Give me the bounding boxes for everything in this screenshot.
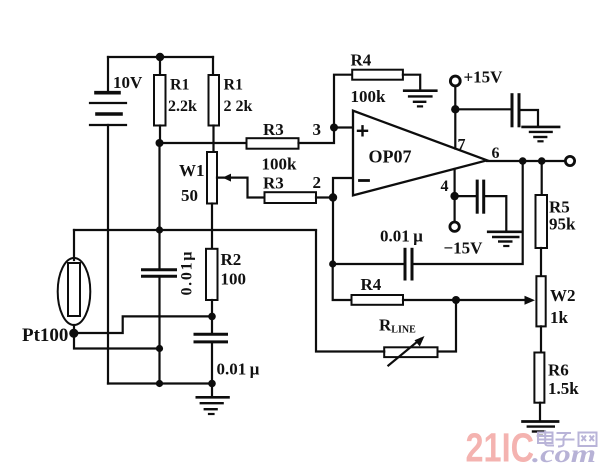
wire +15V to decoupling cap: [455, 108, 511, 110]
svg-text:W1: W1: [179, 161, 205, 180]
svg-text:3: 3: [313, 120, 322, 139]
label 2.2k right: [224, 98, 253, 115]
label R5: [549, 198, 570, 217]
label pin 7: [458, 137, 466, 154]
wire R6 to ground: [539, 403, 541, 421]
wire feedback cap left: [333, 263, 405, 265]
label 100k bridge: [262, 155, 298, 174]
wire R4 node down to R_LINE: [438, 300, 457, 352]
node pin4 / -15V: [450, 192, 458, 200]
node bridge left (R1-R3): [156, 139, 164, 147]
svg-text:R1: R1: [170, 77, 190, 94]
wire battery top stub: [107, 57, 109, 90]
ground at R4 top: [404, 91, 436, 107]
svg-text:0.01 µ: 0.01 µ: [217, 360, 260, 379]
label 10V: [113, 73, 143, 92]
terminal +15V: [450, 76, 460, 86]
wire W1 bottom to R2: [211, 204, 213, 249]
node output R5: [538, 157, 546, 165]
ground at R6: [523, 422, 558, 436]
node R4 low / W2 wiper / R_LINE: [452, 296, 460, 304]
svg-text:OP07: OP07: [369, 147, 412, 167]
svg-text:1k: 1k: [550, 308, 569, 327]
wire R3-1 left lead at y143: [160, 142, 247, 144]
node R2 bottom: [208, 313, 216, 321]
label R_LINE: [379, 316, 416, 336]
svg-text:50: 50: [181, 186, 198, 205]
svg-text:7: 7: [458, 137, 466, 154]
label 100 R2: [221, 270, 247, 289]
resistor R1 left: [154, 57, 166, 143]
svg-text:R6: R6: [548, 361, 569, 380]
wire R2 bottom: [211, 300, 213, 316]
node top rail / R1 left: [156, 53, 164, 61]
svg-text:2.2k: 2.2k: [168, 98, 197, 115]
label R3 lower: [263, 174, 284, 193]
label 2.2k left: [168, 98, 197, 115]
wire cap to ground -15V: [484, 196, 507, 231]
wire R5 to W2: [540, 248, 542, 276]
ground bottom center: [197, 397, 229, 414]
wire R_LINE left lead up: [316, 231, 384, 352]
svg-text:21IC: 21IC: [466, 425, 535, 471]
wire pin 3: [334, 126, 353, 128]
wire Pt100 to R2 bottom (3-wire): [74, 316, 212, 333]
label R3 upper: [263, 120, 284, 139]
label +15V: [464, 68, 504, 87]
label R2: [221, 250, 242, 269]
node output feedback: [519, 157, 527, 165]
wire R3-2 right to pin2 jog: [316, 178, 353, 198]
svg-text:R3: R3: [263, 120, 284, 139]
op-amp U1 OP07: [353, 111, 487, 196]
watermark .com: [532, 441, 596, 468]
potentiometer W1: [207, 152, 265, 204]
resistor R5: [536, 195, 548, 248]
resistor R1 right: [209, 57, 220, 152]
node pin7 / +15V: [451, 105, 459, 113]
svg-text:RLINE: RLINE: [379, 316, 416, 336]
label 0.01u sideways: [179, 252, 196, 296]
wire -15V to decoupling cap: [455, 195, 476, 197]
battery 10V: [90, 93, 126, 125]
svg-text:1.5k: 1.5k: [548, 379, 579, 398]
sensor Pt100: [58, 258, 91, 333]
arrow into W2 wiper: [525, 296, 536, 305]
label pin 6: [492, 145, 500, 162]
svg-text:R4: R4: [351, 51, 372, 70]
label pin 3: [313, 120, 322, 139]
svg-text:R4: R4: [361, 275, 382, 294]
svg-text:100k: 100k: [351, 87, 387, 106]
wire Pt100 lower branch: [74, 333, 160, 348]
potentiometer W2: [536, 276, 545, 326]
label R4 lower: [361, 275, 382, 294]
svg-text:6: 6: [492, 145, 500, 162]
wire battery bottom column: [107, 125, 109, 384]
label 50: [181, 186, 198, 205]
node pin3 / R4: [330, 124, 338, 132]
wire bottom cap to rail: [211, 342, 213, 397]
label R1 right: [224, 77, 244, 94]
node feedback / R4 low: [329, 260, 336, 267]
wire bottom rail: [108, 382, 212, 384]
wire top rail: [108, 56, 213, 58]
node bottom rail left column: [156, 380, 163, 387]
wire output to R5: [541, 161, 543, 195]
wire R4 low right lead: [403, 299, 527, 301]
wire cap to ground: [519, 110, 538, 126]
label 0.01u bottom: [217, 360, 260, 379]
label 100k R4: [351, 87, 387, 106]
wire left column upper: [158, 143, 160, 269]
wire pin2 node down to feedback: [332, 198, 334, 265]
plus sign pin3: [358, 126, 367, 135]
wire W2 to R6: [540, 326, 542, 352]
resistor R3 lower: [265, 192, 317, 203]
label OP07: [369, 147, 412, 167]
label R1 left: [170, 77, 190, 94]
wire R3-1 right to pin3 jog: [299, 128, 335, 144]
capacitor 0.01u feedback: [405, 249, 412, 279]
svg-text:Pt100: Pt100: [22, 325, 68, 346]
node pin2 / R3-2: [329, 193, 337, 201]
capacitor 0.01u left column: [143, 270, 176, 277]
svg-text:100: 100: [221, 270, 247, 289]
svg-text:100k: 100k: [262, 155, 298, 174]
label Pt100: [22, 325, 68, 346]
node y230 left column: [156, 226, 163, 233]
wire Pt100 top stub: [73, 230, 75, 260]
minus sign pin2: [360, 179, 369, 182]
label pin 2: [313, 173, 322, 192]
label 95k: [549, 215, 576, 234]
svg-text:W2: W2: [550, 286, 576, 305]
svg-text:R3: R3: [263, 174, 284, 193]
wire pin4: [454, 169, 456, 222]
svg-text:2: 2: [313, 173, 322, 192]
svg-text:4: 4: [441, 178, 449, 195]
wire R4 top left lead: [334, 75, 352, 128]
label 0.01u feedback: [380, 227, 423, 246]
svg-text:10V: 10V: [113, 73, 143, 92]
wire R2 node to bottom cap: [211, 316, 213, 334]
label 1k: [550, 308, 569, 327]
wire R4 top right lead: [403, 75, 420, 91]
label W1: [179, 161, 205, 180]
svg-text:0.01µ: 0.01µ: [179, 252, 196, 296]
watermark dianziwang: [538, 431, 597, 447]
label pin 4: [441, 178, 449, 195]
capacitor decoupling +15V: [512, 95, 519, 126]
wire output pin6: [487, 160, 566, 162]
label 1.5k: [548, 379, 579, 398]
resistor R4 lower: [352, 295, 404, 305]
node Pt100 lower/left column: [156, 345, 163, 352]
svg-text:0.01 µ: 0.01 µ: [380, 227, 423, 246]
wire feedback right vertical: [413, 161, 523, 264]
terminal output: [565, 156, 574, 165]
label -15V: [444, 239, 484, 258]
node Pt100 bottom: [69, 329, 78, 338]
svg-text:−15V: −15V: [444, 239, 484, 258]
svg-text:R2: R2: [221, 250, 242, 269]
label W2: [550, 286, 576, 305]
svg-text:R1: R1: [224, 77, 244, 94]
resistor R6: [534, 353, 544, 403]
node bottom rail cap: [208, 380, 216, 388]
resistor R_LINE: [384, 336, 437, 366]
capacitor decoupling -15V: [477, 181, 484, 212]
label R4 top: [351, 51, 372, 70]
ground at +15V cap: [523, 127, 560, 141]
wire left column lower: [158, 277, 160, 384]
wire feedback node down to R4 low: [333, 264, 352, 300]
wire pin7: [454, 86, 456, 149]
resistor R2: [206, 249, 218, 300]
capacitor 0.01u bottom: [195, 334, 227, 342]
resistor R4 top: [352, 70, 403, 80]
terminal -15V: [450, 222, 459, 231]
svg-text:95k: 95k: [549, 215, 576, 234]
watermark 21IC: [466, 425, 535, 471]
svg-text:2 2k: 2 2k: [224, 98, 253, 115]
resistor R3 upper: [247, 138, 299, 149]
svg-text:+15V: +15V: [464, 68, 504, 87]
wire y230 rail: [74, 229, 316, 231]
ground at -15V cap: [488, 232, 521, 246]
label R6: [548, 361, 569, 380]
